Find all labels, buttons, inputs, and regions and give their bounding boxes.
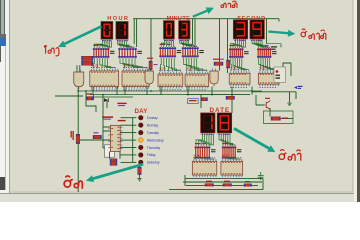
IC U8 date tens counter [221, 154, 243, 179]
wire gnd drop right [289, 92, 291, 101]
resistor network RN6 [257, 45, 277, 58]
wire fan hour2 up [117, 41, 134, 48]
wire IC drop h [231, 87, 233, 95]
black net label [271, 46, 277, 50]
wire date bottom pins bus1 [185, 178, 263, 180]
wire 4017 feed [102, 95, 104, 127]
blue probe marker [294, 86, 303, 89]
dip switch box [105, 145, 115, 157]
svg-text:HOUR: HOUR [107, 16, 129, 22]
resistor R load [271, 117, 281, 120]
wire transistor emitter drop [269, 108, 271, 117]
logic gate G0 reset gate [74, 70, 84, 90]
arrow terminator head [280, 45, 283, 48]
IC U4 minute tens counter [185, 66, 209, 90]
wire top carry bus [133, 18, 279, 20]
resistor R saturday [138, 167, 142, 175]
toolbar dark square bottom [0, 177, 5, 190]
wire fan sec2 up [252, 39, 270, 48]
svg-text:4026: 4026 [259, 66, 266, 70]
svg-text:Friday: Friday [147, 153, 156, 157]
vertical red designator text [71, 131, 74, 140]
resistor Rc2 [214, 62, 223, 65]
resistor R date1 [205, 184, 214, 187]
wire loop box [264, 111, 294, 124]
wire led stub 0 [121, 117, 137, 119]
LED D5 Thursday [139, 145, 143, 149]
toolbar inner divider line [5, 46, 6, 190]
svg-text:SECOND: SECOND [237, 16, 266, 22]
wire date bottom left riser [184, 175, 186, 186]
resistor R date clk [201, 98, 208, 101]
7-segment display hour units [116, 22, 128, 42]
annotation arrow to minute [193, 7, 214, 16]
wire fan sec1 up [231, 39, 246, 48]
wire IC drop e [160, 87, 162, 95]
label R load value [282, 118, 288, 119]
capacitor right of date [258, 172, 264, 180]
svg-text:4026: 4026 [222, 154, 229, 158]
wire sat ground link [139, 175, 141, 177]
wire right drop [295, 92, 297, 99]
resistor R day a [110, 159, 117, 162]
wire fan hour2 down [120, 58, 147, 68]
IC U1 hour units counter [90, 63, 119, 90]
resistor network RN1 [93, 45, 115, 59]
wire minute display drop b [194, 19, 196, 47]
Lao text "vanthi" (date) [279, 150, 301, 161]
toolbar blue icon [0, 38, 6, 46]
7-segment display second tens [233, 20, 247, 41]
Rc2 labels [213, 59, 224, 60]
LED D2 Monday [139, 123, 143, 127]
red value labels bottom band [206, 181, 250, 182]
resistor network RN7 [195, 143, 216, 159]
wire second display drop [266, 19, 268, 44]
7-segment display date tens [201, 113, 215, 135]
wire right mid bus [252, 91, 296, 93]
left toolbar strip [0, 0, 10, 202]
wire 4017 bottom stub b [119, 152, 121, 159]
resistor network RN4 [182, 44, 204, 58]
7-segment display date units [217, 113, 232, 135]
toolbar dark icon above [0, 34, 6, 38]
clock source box [188, 99, 198, 104]
wire res link [281, 118, 293, 120]
resistor R date2 [223, 184, 232, 187]
wire fan min2 down [184, 58, 207, 72]
svg-text:4026: 4026 [91, 63, 98, 67]
svg-text:Saturday: Saturday [147, 161, 160, 165]
wire mid bus 2 [90, 94, 234, 96]
wire led stub 2 [121, 132, 137, 134]
LED D3 Tuesday [139, 130, 143, 134]
7-segment display second units [250, 20, 265, 41]
svg-text:Sunday: Sunday [147, 116, 158, 120]
logic gate G2 minute reset gate [210, 69, 218, 87]
wire date top riser b [200, 95, 202, 108]
right window edge [354, 0, 357, 202]
wire minute display drop a [192, 19, 194, 44]
wire hour display drop a [133, 19, 135, 44]
diode D8 [104, 98, 109, 102]
LED D4 Wednesday [138, 138, 143, 143]
resistor network RN8 [222, 143, 242, 159]
wire fan date2 ic [223, 158, 241, 160]
resistor R pullup day [76, 134, 80, 143]
svg-text:Thursday: Thursday [147, 146, 161, 150]
wire diode drop [94, 95, 108, 108]
wire mid bus 3 [88, 96, 133, 98]
logic gate G1 hour reset gate [145, 69, 153, 87]
switch box [274, 67, 286, 83]
Lao text "nathi" (minute) [221, 1, 237, 7]
wire riser between minute and second [219, 19, 221, 71]
svg-text:Monday: Monday [147, 124, 159, 128]
svg-text:4026: 4026 [159, 66, 166, 70]
wire hour display drop b [136, 19, 138, 47]
wire transistor base wire [256, 95, 264, 105]
wire led stub 5 [121, 154, 137, 156]
resistor network RN3 [159, 44, 181, 58]
IC U6 second tens counter [258, 66, 279, 88]
status bar [0, 193, 360, 203]
wire 4017 left loop [103, 127, 110, 148]
wire IC drop g [211, 87, 213, 95]
wire day link [78, 139, 110, 141]
wire fan date2 down [219, 134, 235, 147]
wire fan hour1 up [95, 41, 112, 48]
resistor R date3 [244, 184, 252, 187]
annotation arrow to hour [58, 26, 102, 47]
wire led stub 6 [121, 161, 137, 163]
IC U3 minute units counter [158, 66, 183, 90]
resistor network RN2 [118, 45, 142, 59]
ground symbol right gnd [287, 101, 291, 106]
wire fan min2 up [180, 39, 197, 47]
wire IC drop d [146, 87, 148, 95]
svg-text:Wednesday: Wednesday [147, 138, 164, 142]
label above R base [87, 93, 93, 94]
resistor network RN5 [229, 45, 249, 58]
wire fan date1 down [196, 134, 213, 147]
IC U9 4017 day counter [108, 125, 122, 151]
wire riser between hour and minute [150, 19, 152, 71]
red text HT262 [102, 116, 113, 119]
svg-text:4026: 4026 [230, 66, 237, 70]
wire date bottom right riser [262, 179, 264, 190]
7-segment display minute units [179, 21, 190, 41]
resistor R date top [226, 96, 235, 99]
resistor Rc3 [227, 60, 230, 68]
LED D7 Saturday [139, 160, 143, 164]
transistor Q1 [263, 101, 270, 110]
wire gate inputs [77, 65, 80, 72]
red text 4017 ref [118, 120, 126, 121]
Rc1 labels [147, 58, 158, 66]
wire date bottom pins bus3 [186, 184, 258, 186]
wire saturday drop [139, 163, 141, 167]
wire fan sec1 down [231, 58, 249, 71]
resistor R day b [110, 162, 117, 165]
Lao text "vinathi" (second) [301, 29, 326, 39]
svg-text:DATE: DATE [210, 107, 231, 114]
wire fan hour1 down [93, 58, 115, 68]
red text 557max [117, 103, 126, 106]
wire riser left of second [227, 19, 229, 73]
wire date feed bus [186, 94, 250, 96]
wire date bottom pins bus2 [183, 181, 262, 183]
wire led bus [132, 118, 134, 163]
sheet border [9, 0, 353, 192]
LED D6 Friday [139, 153, 143, 157]
wire left stub [55, 95, 83, 97]
IC U7 date units counter [192, 154, 217, 179]
wire mid bus 1 [78, 90, 262, 92]
resistor RN9a [82, 56, 94, 60]
annotation arrow to day [86, 164, 143, 182]
wire fan min1 up [161, 39, 174, 47]
Lao text "van" (day) [64, 176, 82, 188]
label above R osc [94, 132, 99, 133]
svg-text:DAY: DAY [134, 108, 148, 115]
toolbar left dark edge [0, 0, 1, 62]
resistor Rc1 [149, 61, 152, 70]
wire IC drop a [92, 87, 94, 95]
svg-text:MINUTE: MINUTE [167, 16, 191, 22]
7-segment display minute tens [164, 21, 175, 41]
wire date top riser a [231, 95, 233, 113]
wire riser right end [278, 19, 280, 22]
junction dots [77, 90, 253, 95]
resistor R osc [93, 135, 102, 138]
ground symbol saturday gnd [137, 176, 141, 181]
svg-text:4026: 4026 [123, 63, 130, 67]
wire IC drop i [251, 87, 253, 95]
wire IC drop f [187, 87, 189, 95]
wire led stub 3 [121, 139, 137, 141]
wire led stub 4 [121, 147, 137, 149]
IC U2 hour tens counter [122, 63, 149, 90]
wire right loop over ic [283, 63, 291, 76]
resistor RN9b [82, 61, 94, 65]
wire fan date1 ic [195, 158, 215, 160]
transistor label [265, 98, 270, 99]
resistor R base [87, 97, 94, 100]
7-segment display hour tens [101, 22, 113, 42]
wire 4017 bottom stub a [109, 152, 111, 159]
Lao text "moung" (hour) [44, 46, 58, 56]
wire date bottom long [169, 189, 263, 191]
wire led stub 1 [121, 124, 137, 126]
annotation arrow to date [234, 128, 276, 152]
wire with arrow terminator [267, 44, 282, 47]
wire left column drop [77, 87, 79, 192]
wire IC drop c [124, 87, 126, 95]
wire left drop a [86, 91, 96, 112]
toolbar green edge [1, 0, 5, 37]
wire fan min1 down [161, 58, 181, 72]
LED D1 Sunday [139, 116, 143, 120]
wire IC drop b [116, 87, 118, 95]
svg-text:4026: 4026 [186, 66, 193, 70]
annotation arrow to second [268, 30, 295, 37]
wire fan sec2 down [259, 58, 278, 71]
svg-text:4026: 4026 [193, 154, 200, 158]
svg-text:Tuesday: Tuesday [147, 131, 160, 135]
IC U5 second units counter [229, 66, 250, 88]
